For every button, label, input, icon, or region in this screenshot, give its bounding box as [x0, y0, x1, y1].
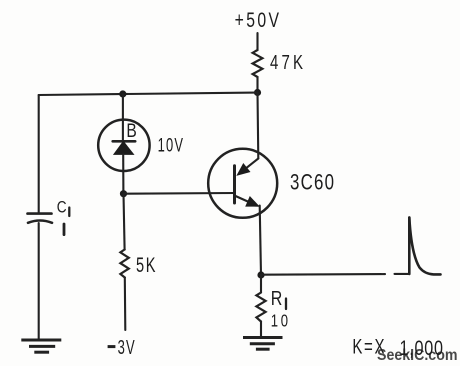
- label -3V: [108, 345, 116, 348]
- svg-text:3V: 3V: [118, 336, 136, 359]
- transistor emitter lead with arrow: [236, 196, 260, 207]
- svg-text:1,000: 1,000: [400, 337, 443, 361]
- svg-text:K=X: K=X: [352, 334, 384, 358]
- ground right: [243, 338, 283, 350]
- svg-text:47K: 47K: [270, 51, 303, 74]
- wire top horizontal bus: [39, 93, 258, 96]
- node C junction dot: [120, 190, 127, 197]
- wire node C down to resistor 5K: [124, 194, 125, 250]
- breakdown diode B circle: [98, 120, 149, 171]
- svg-text:+50V: +50V: [235, 8, 280, 32]
- wire R1 to ground: [260, 322, 262, 337]
- wire output segment after gap: [395, 273, 409, 275]
- wire node B down to breakdown diode: [122, 94, 124, 141]
- wire 5K to -3V: [124, 278, 127, 331]
- diode triangle anode: [114, 142, 134, 155]
- resistor 5K: [120, 250, 128, 278]
- output pulse waveform: [409, 218, 440, 275]
- resistor R1: [256, 293, 265, 322]
- wire from +50V to resistor 47K: [256, 33, 258, 50]
- svg-text:5K: 5K: [136, 252, 156, 277]
- svg-text:10V: 10V: [158, 135, 184, 156]
- svg-text:B: B: [126, 120, 136, 142]
- resistor 47K: [253, 50, 263, 77]
- wire left vertical to capacitor C1: [38, 95, 40, 213]
- svg-text:3C60: 3C60: [290, 170, 334, 195]
- value label 1: [63, 224, 66, 235]
- wire base: node C to transistor base bar: [124, 192, 235, 195]
- transistor collector lead with arrow into base: [236, 159, 258, 176]
- node A junction dot: [254, 89, 261, 96]
- wire from 47K to node A: [256, 77, 258, 93]
- transistor base bar: [233, 166, 236, 203]
- wire emitter down to node D: [260, 206, 261, 276]
- wire collector: node A down into transistor: [256, 93, 259, 159]
- node D junction dot: [257, 271, 264, 278]
- wire node D to resistor R1: [260, 275, 262, 293]
- svg-text:C: C: [57, 198, 67, 217]
- svg-text:10: 10: [271, 312, 288, 331]
- wire output horizontal: [261, 273, 385, 276]
- label R1: [271, 287, 283, 309]
- diode cathode bar: [113, 140, 136, 143]
- node B junction dot top of diode: [119, 90, 126, 97]
- capacitor C1: [28, 214, 53, 223]
- wire capacitor to ground: [38, 223, 40, 339]
- ground left: [21, 340, 61, 352]
- transistor Q1 circle: [208, 149, 277, 218]
- wire diode to node C: [122, 154, 124, 194]
- label C1: [57, 198, 67, 217]
- svg-text:R: R: [271, 287, 283, 309]
